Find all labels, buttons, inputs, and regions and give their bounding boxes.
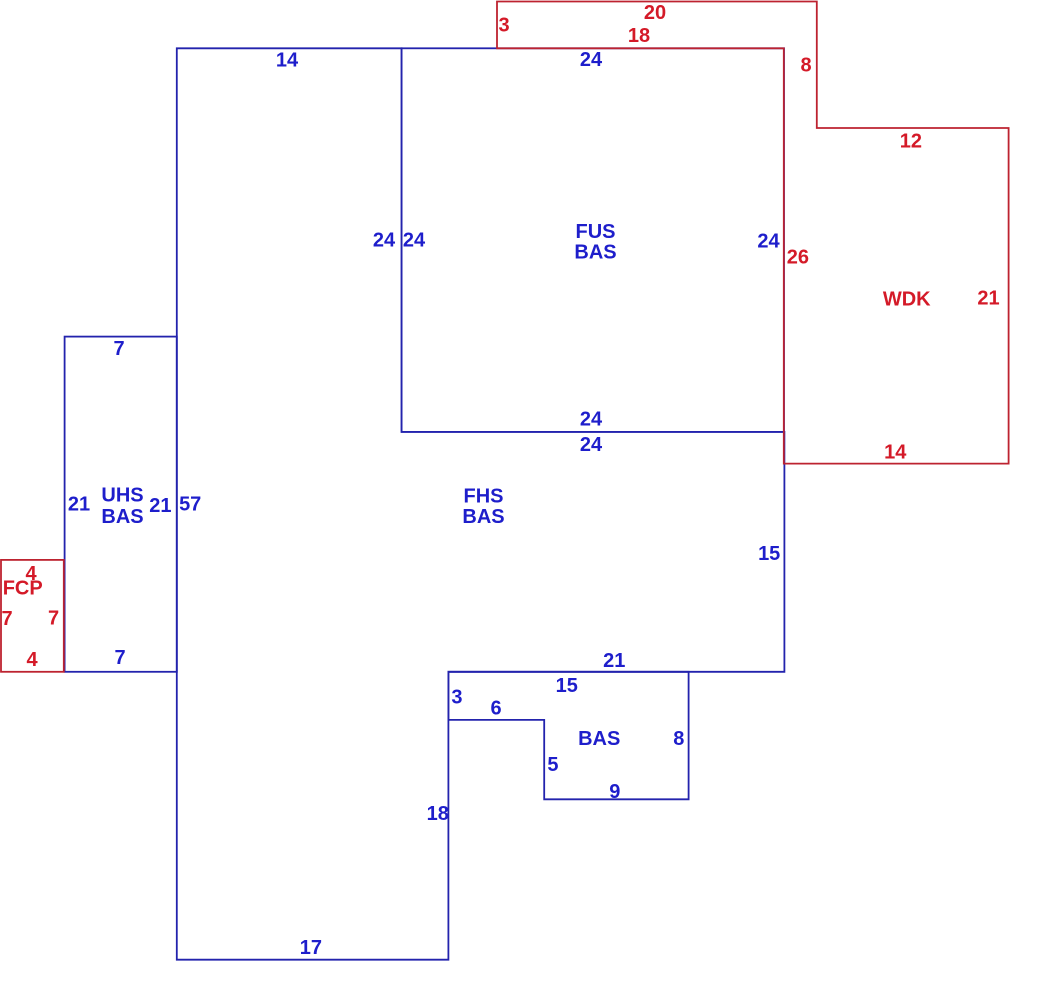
svg-text:17: 17	[300, 937, 322, 959]
svg-text:BAS: BAS	[101, 506, 143, 528]
BAS small polygon outline	[448, 672, 688, 800]
svg-text:21: 21	[977, 287, 999, 309]
svg-text:24: 24	[757, 230, 780, 252]
svg-text:5: 5	[547, 754, 558, 776]
svg-text:18: 18	[628, 25, 650, 47]
svg-text:24: 24	[580, 409, 603, 431]
svg-text:15: 15	[556, 675, 578, 697]
svg-text:20: 20	[644, 2, 666, 24]
FUS/BAS rectangle outline	[402, 48, 784, 432]
svg-text:26: 26	[787, 246, 809, 268]
UHS/BAS rectangle outline	[65, 337, 177, 672]
svg-text:24: 24	[373, 229, 396, 251]
svg-text:FUS: FUS	[576, 221, 616, 243]
svg-text:7: 7	[113, 338, 124, 360]
svg-text:14: 14	[884, 442, 907, 464]
svg-text:12: 12	[900, 130, 922, 152]
svg-text:57: 57	[179, 493, 201, 515]
svg-text:14: 14	[276, 50, 299, 72]
svg-text:3: 3	[498, 15, 509, 37]
svg-text:18: 18	[427, 803, 449, 825]
svg-text:15: 15	[758, 543, 780, 565]
svg-text:7: 7	[114, 647, 125, 669]
svg-text:24: 24	[403, 229, 426, 251]
svg-text:8: 8	[673, 728, 684, 750]
svg-text:FHS: FHS	[464, 486, 504, 508]
svg-text:24: 24	[580, 434, 603, 456]
svg-text:21: 21	[603, 650, 625, 672]
FHS/BAS polygon outline	[177, 48, 785, 959]
svg-text:3: 3	[451, 686, 462, 708]
svg-text:BAS: BAS	[578, 728, 620, 750]
svg-text:7: 7	[48, 607, 59, 629]
svg-text:UHS: UHS	[101, 484, 143, 506]
svg-text:BAS: BAS	[462, 506, 504, 528]
svg-text:4: 4	[26, 649, 38, 671]
svg-text:7: 7	[1, 608, 12, 630]
svg-text:FCP: FCP	[3, 578, 43, 600]
svg-text:24: 24	[580, 49, 603, 71]
WDK polygon outline (red)	[497, 2, 1009, 464]
svg-text:9: 9	[609, 781, 620, 803]
svg-text:BAS: BAS	[574, 241, 616, 263]
svg-text:6: 6	[491, 697, 502, 719]
FCP rectangle outline (red)	[1, 560, 64, 672]
svg-text:21: 21	[68, 493, 90, 515]
svg-text:21: 21	[149, 495, 171, 517]
svg-text:8: 8	[800, 55, 811, 77]
svg-text:WDK: WDK	[883, 288, 931, 310]
